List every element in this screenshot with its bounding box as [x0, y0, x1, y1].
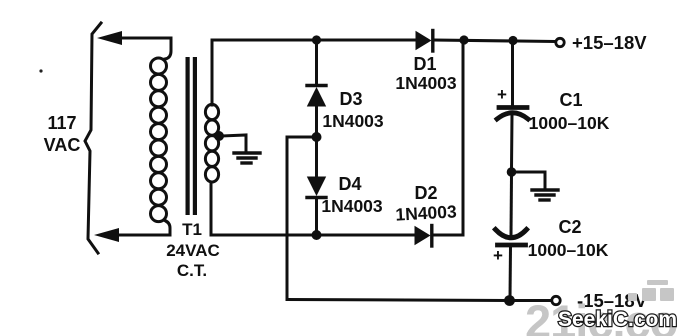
wire primary top lead with arrow: [118, 37, 170, 40]
node D (D3/D4 common junction): [312, 132, 322, 142]
node A (top rail / D3 branch): [312, 35, 321, 44]
node G (bottom rail / terminal junction): [504, 295, 515, 306]
svg-text:C.T.: C.T.: [177, 261, 207, 280]
svg-text:+15–18V: +15–18V: [572, 32, 647, 53]
svg-text:C1: C1: [559, 90, 582, 110]
capacitor C1: [497, 108, 528, 170]
svg-text:D4: D4: [338, 174, 361, 194]
ground (output common): [532, 190, 558, 200]
capacitor C2: [496, 230, 527, 300]
svg-text:1N4003: 1N4003: [395, 73, 457, 93]
wire to -V terminal: [514, 299, 550, 302]
svg-text:+: +: [493, 246, 503, 265]
node F (ground junction): [507, 167, 517, 177]
wire top rail (secondary top to D1 anode): [212, 39, 416, 42]
diode D1: [416, 31, 433, 52]
wire D2 cathode up to top rail: [433, 42, 463, 235]
wire node F down to C2: [510, 175, 514, 236]
svg-text:D1: D1: [413, 54, 436, 74]
transformer T1 core: [186, 57, 198, 215]
wire primary bottom lead with arrow: [116, 234, 170, 237]
svg-text:VAC: VAC: [44, 135, 81, 155]
wire C1 branch from node C: [511, 42, 514, 104]
transformer T1 primary winding: [151, 38, 172, 235]
svg-text:24VAC: 24VAC: [166, 241, 220, 260]
svg-text:117: 117: [47, 113, 76, 133]
node E (middle rail / D4): [312, 230, 322, 240]
speck: [39, 69, 42, 72]
watermark gray 21ic: [525, 280, 680, 336]
node B (D2 riser junction): [459, 35, 468, 44]
svg-text:1000–10K: 1000–10K: [528, 240, 609, 260]
svg-text:1000–10K: 1000–10K: [529, 113, 610, 133]
wire middle rail (secondary bottom to D2 anode): [211, 234, 415, 237]
diode D3: [307, 86, 326, 134]
wire top rail (D1 cathode to +V terminal): [434, 40, 554, 42]
svg-text:SeekiC.com: SeekiC.com: [558, 308, 677, 331]
node center tap: [214, 131, 224, 141]
transformer T1 secondary winding: [205, 40, 218, 235]
svg-text:C2: C2: [558, 217, 581, 237]
terminal +V: [556, 38, 564, 46]
diode D2: [415, 226, 432, 247]
svg-text:1N4003: 1N4003: [322, 111, 384, 131]
terminal -V: [552, 296, 560, 304]
svg-text:1N4003: 1N4003: [395, 201, 458, 224]
AC source lead (117 VAC line with break mark): [85, 23, 101, 253]
wire center tap to ground: [222, 135, 246, 151]
wire node F to ground: [514, 172, 545, 188]
wire bottom rail (-V): [287, 300, 509, 301]
svg-text:1N4003: 1N4003: [321, 196, 383, 216]
svg-text:T1: T1: [182, 220, 202, 239]
wire D3 branch (node A down to D3): [315, 40, 318, 84]
svg-text:D2: D2: [414, 183, 437, 203]
node C (C1 branch junction): [508, 36, 517, 45]
svg-text:D3: D3: [339, 89, 362, 109]
ground (center tap): [234, 153, 260, 163]
diode D4: [307, 140, 326, 231]
wire node D to -V rail: [287, 137, 313, 299]
svg-text:+: +: [497, 85, 507, 104]
